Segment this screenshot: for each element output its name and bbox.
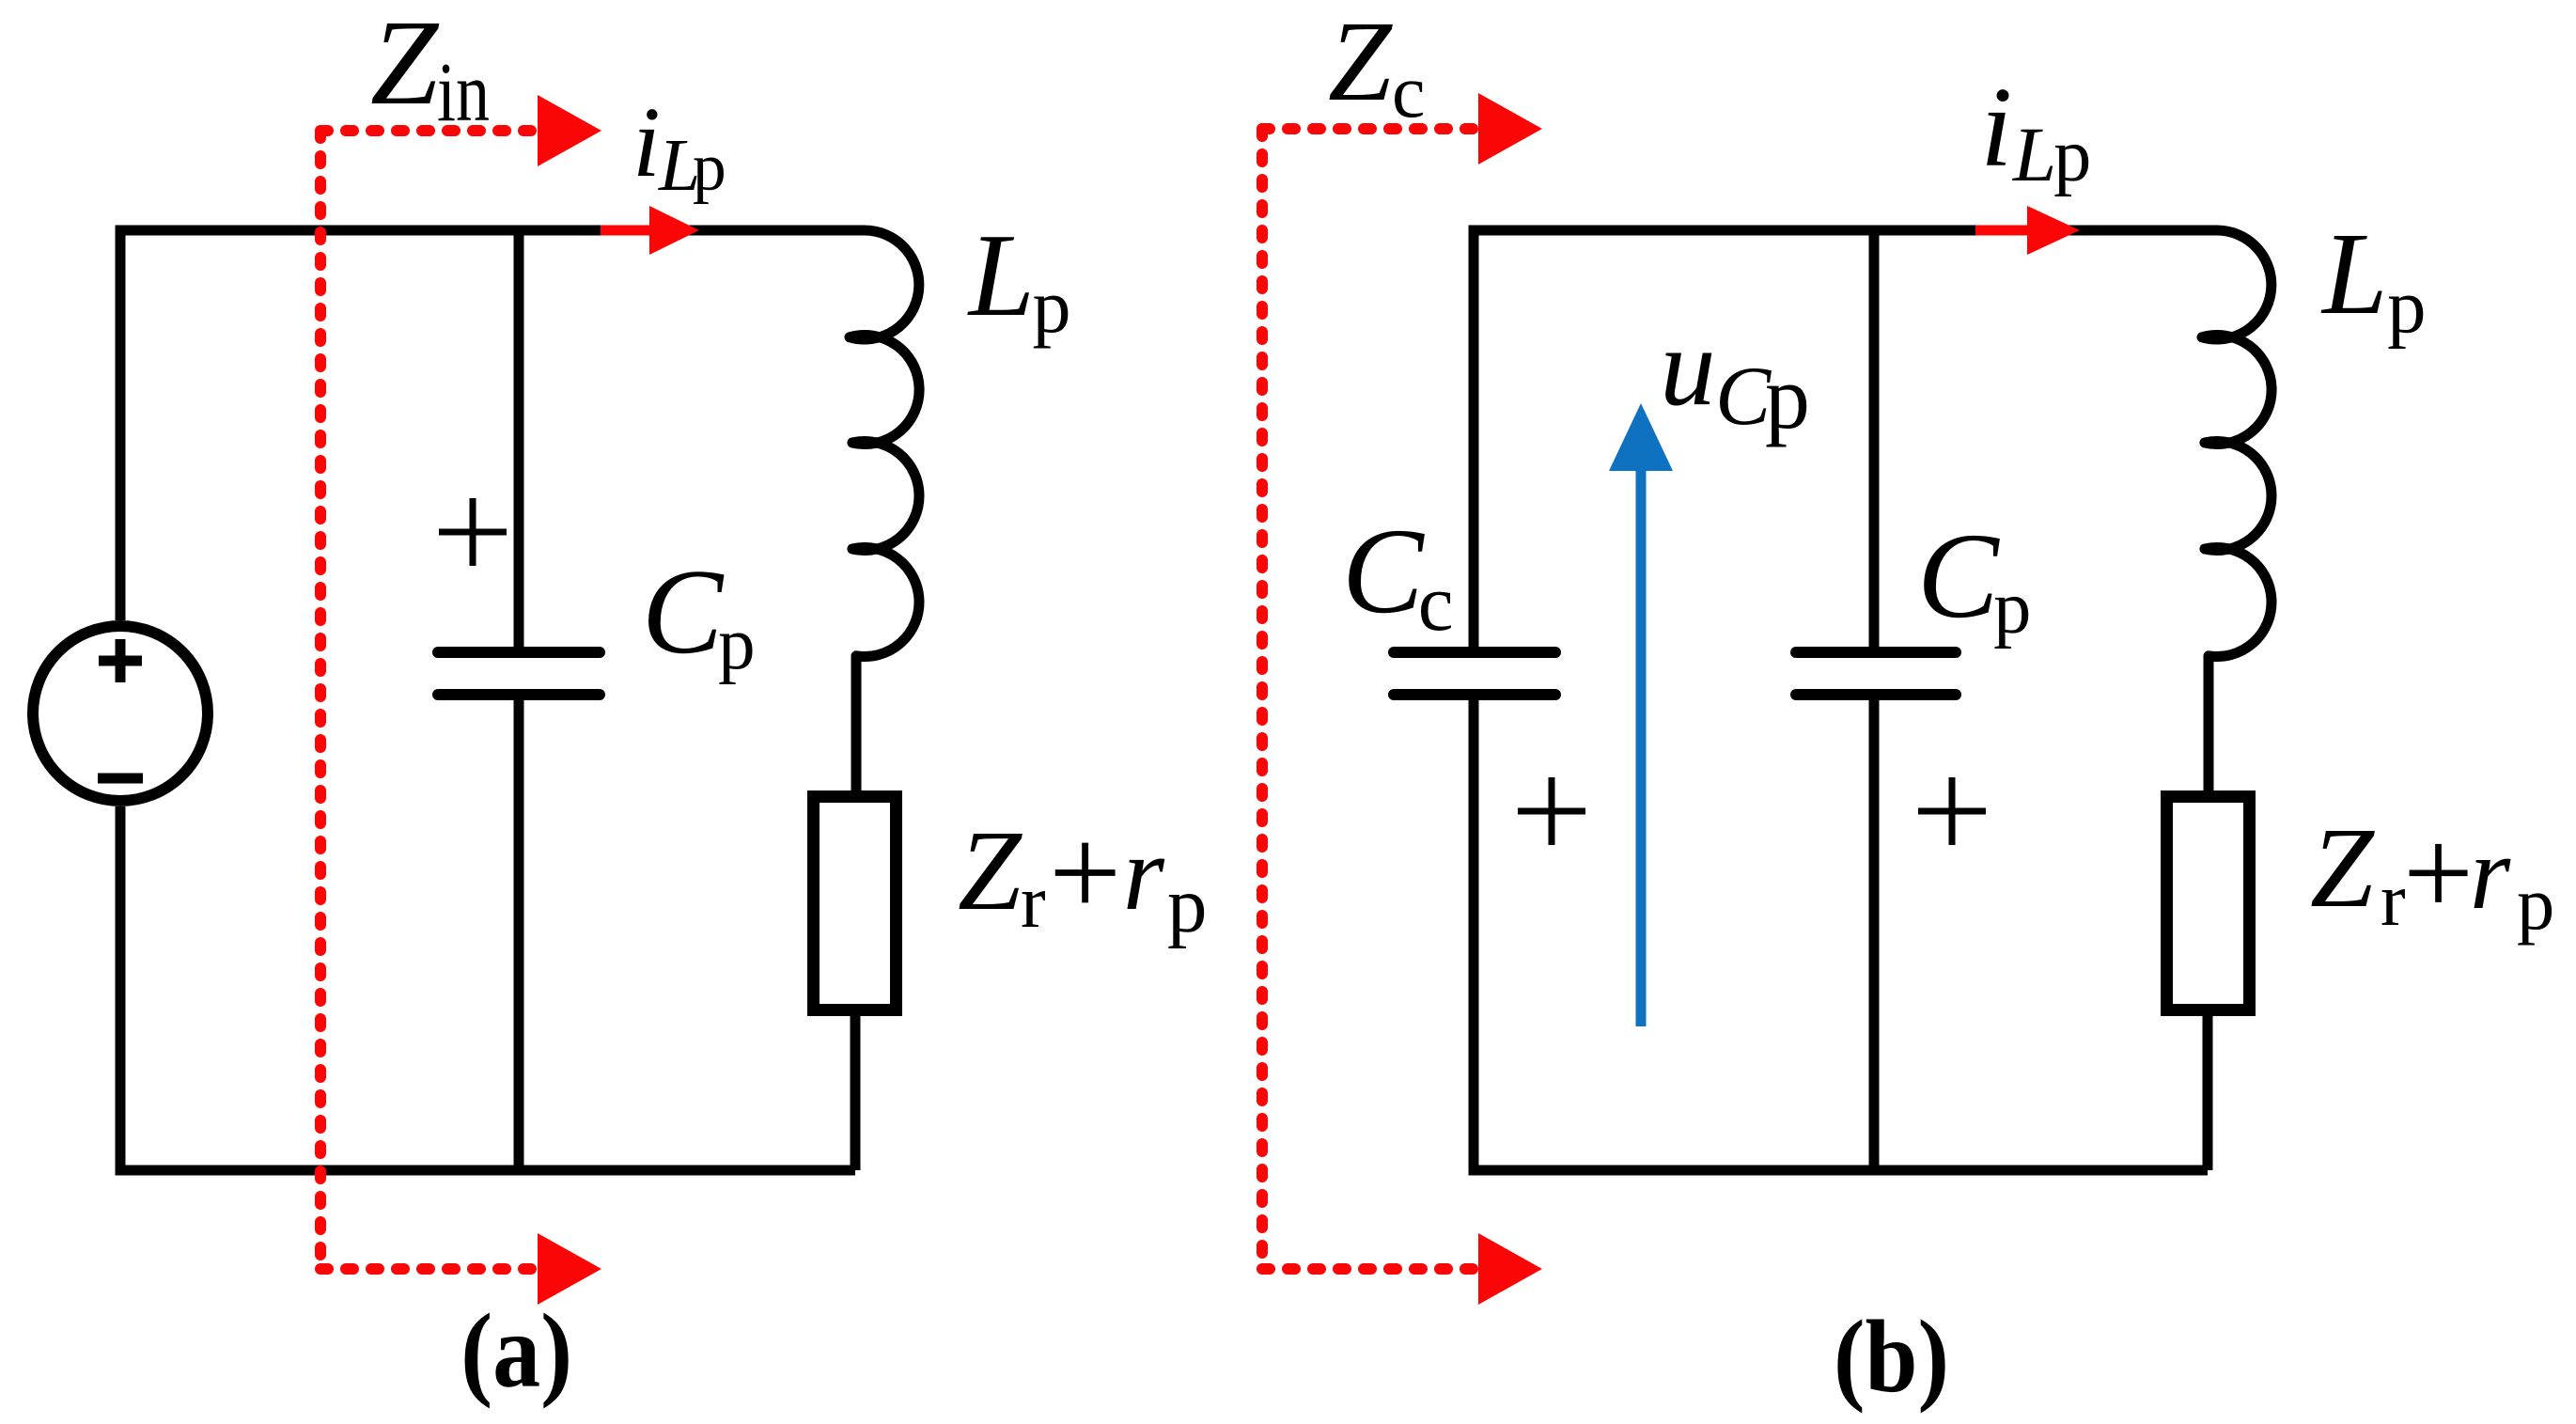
svg-text:C: C bbox=[1715, 351, 1772, 443]
svg-text:L: L bbox=[2012, 111, 2056, 197]
svg-text:p: p bbox=[718, 603, 756, 685]
svg-text:+: + bbox=[1049, 801, 1121, 944]
svg-text:p: p bbox=[1033, 263, 1071, 349]
svg-text:r: r bbox=[1123, 815, 1165, 932]
svg-text:r: r bbox=[1021, 861, 1046, 944]
svg-text:Z: Z bbox=[1328, 0, 1393, 125]
svg-text:p: p bbox=[2517, 862, 2554, 946]
svg-text:r: r bbox=[2470, 816, 2511, 931]
svg-text:p: p bbox=[2053, 114, 2091, 197]
svg-text:p: p bbox=[1993, 566, 2031, 649]
svg-text:Z: Z bbox=[958, 807, 1023, 934]
svg-text:u: u bbox=[1660, 305, 1715, 429]
svg-text:Z: Z bbox=[2310, 805, 2375, 931]
svg-text:p: p bbox=[1167, 861, 1208, 949]
svg-text:+: + bbox=[2403, 803, 2474, 942]
svg-text:(b): (b) bbox=[1834, 1299, 1949, 1414]
svg-text:r: r bbox=[2381, 859, 2406, 942]
svg-text:p: p bbox=[1765, 347, 1810, 447]
svg-text:in: in bbox=[437, 46, 490, 139]
svg-text:L: L bbox=[2320, 210, 2388, 339]
svg-text:p: p bbox=[693, 130, 726, 204]
svg-text:c: c bbox=[1392, 51, 1426, 133]
svg-text:C: C bbox=[1342, 504, 1425, 639]
svg-text:i: i bbox=[632, 87, 661, 198]
svg-text:C: C bbox=[1917, 509, 2000, 644]
svg-text:C: C bbox=[642, 545, 725, 680]
svg-text:c: c bbox=[1418, 559, 1454, 648]
svg-text:p: p bbox=[2387, 262, 2426, 349]
svg-text:Z: Z bbox=[370, 0, 440, 131]
svg-text:(a): (a) bbox=[461, 1293, 572, 1410]
svg-text:i: i bbox=[1980, 64, 2012, 191]
svg-text:L: L bbox=[967, 211, 1035, 341]
